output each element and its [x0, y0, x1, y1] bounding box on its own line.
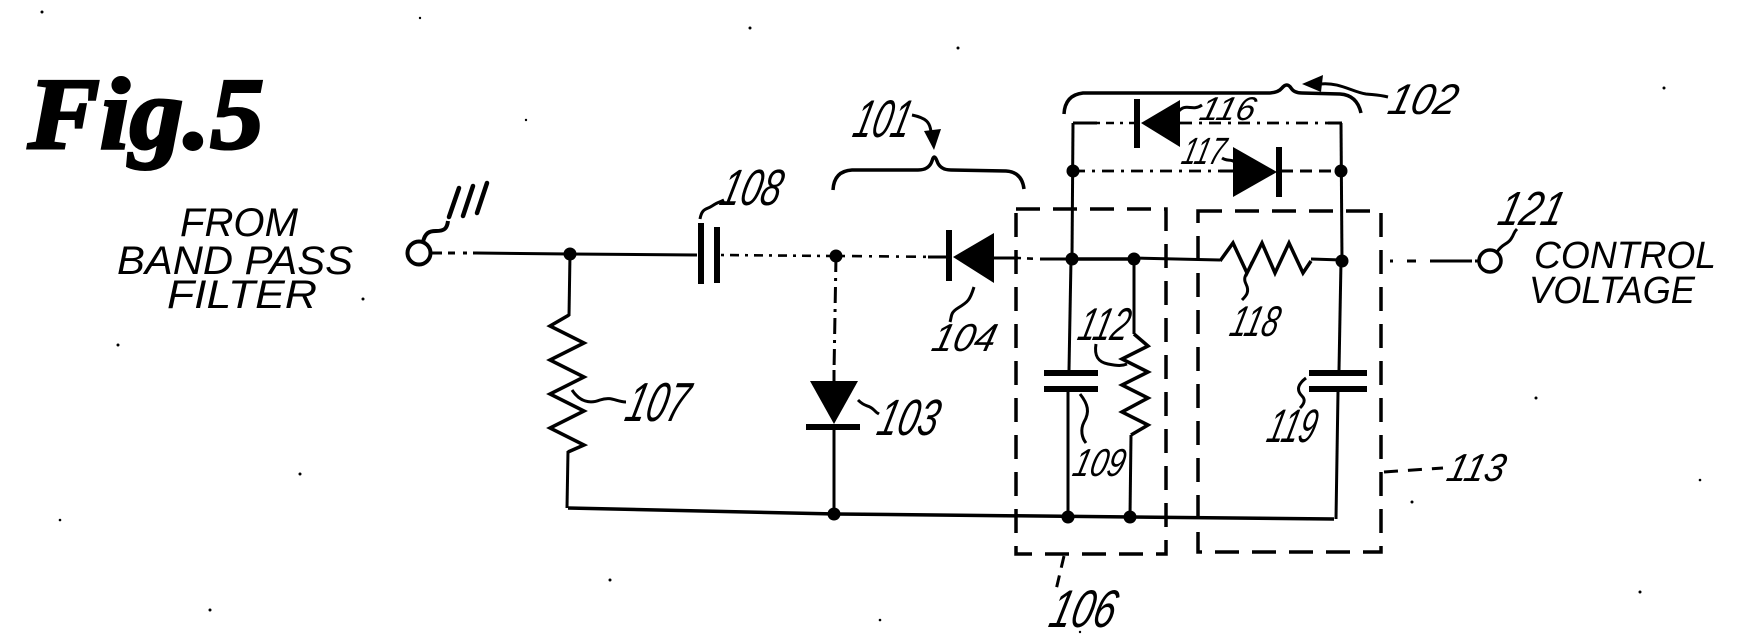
leader 119 [1299, 378, 1306, 408]
label 117 [1178, 131, 1232, 173]
dashed box 106 [1016, 209, 1166, 554]
wire top branch 2 right [1281, 170, 1341, 173]
resistor 112 [1122, 259, 1148, 517]
leader 107 [572, 390, 626, 402]
leader 106 dashed [1056, 556, 1064, 590]
svg-text:FILTER: FILTER [167, 273, 317, 317]
capacitor 119 [1309, 261, 1367, 519]
label 109 [1069, 442, 1131, 485]
bottom rail [568, 508, 1334, 519]
figure title Fig.5 [27, 58, 264, 171]
wire node B to diode 104 [842, 256, 946, 257]
brace 101 [833, 157, 1024, 190]
label 103 [872, 389, 946, 446]
junction rail-112 [1124, 511, 1137, 524]
wire capacitor 108 to node B [721, 255, 830, 256]
node A junction [564, 248, 577, 261]
text CONTROL VOLTAGE [1529, 235, 1716, 312]
node C junction [1066, 253, 1079, 266]
svg-text:Fig.5: Fig.5 [27, 58, 264, 171]
wire node E to terminal 121 [1390, 260, 1478, 263]
junction rail-109 [1062, 511, 1075, 524]
label 121 [1493, 183, 1570, 236]
leader 103 [858, 400, 879, 414]
label 104 [928, 317, 1002, 360]
label 107 [620, 371, 698, 433]
resistor 118 [1220, 243, 1311, 273]
leader 121 [1497, 229, 1517, 252]
terminal 111 [408, 242, 431, 265]
diode 103 [806, 256, 860, 514]
node D junction [1128, 253, 1141, 266]
wire top branch 1 left [1073, 122, 1097, 125]
svg-text:121: 121 [1493, 183, 1570, 236]
leader 113 dashed [1384, 468, 1443, 472]
wire node D to resistor 118 [1134, 258, 1220, 260]
label 119 [1262, 401, 1323, 453]
label 108 [715, 159, 789, 216]
junction top branch 2 left [1067, 165, 1080, 178]
junction rail-103 [828, 508, 841, 521]
right vertical riser [1341, 123, 1342, 261]
label 118 [1226, 298, 1287, 346]
label 113 [1443, 447, 1511, 490]
bracket 102 [1064, 85, 1361, 114]
wire stub at diode 117 [1220, 170, 1234, 173]
terminal 121 [1479, 250, 1501, 272]
wire node A to capacitor 108 [570, 254, 697, 255]
wire diode 104 to node C [994, 257, 1018, 260]
leader 116 [1178, 105, 1202, 112]
label 111 [449, 183, 487, 217]
leader 117 [1222, 158, 1236, 163]
leader 112 [1096, 344, 1128, 366]
dashed box 113 [1198, 211, 1381, 552]
arrow 101 [912, 115, 931, 132]
leader 109 [1080, 394, 1087, 443]
svg-text:VOLTAGE: VOLTAGE [1529, 270, 1696, 312]
wire stub at diode 104 [928, 256, 947, 259]
junction top branch 2 right [1335, 165, 1348, 178]
node E junction [1336, 255, 1349, 268]
label 106 [1044, 580, 1124, 637]
leader 118 [1242, 262, 1252, 300]
svg-text:113: 113 [1443, 447, 1511, 490]
wire top branch 2 left [1073, 170, 1233, 173]
label 116 [1196, 91, 1260, 127]
left vertical riser [1072, 123, 1073, 259]
svg-text:102: 102 [1384, 76, 1464, 124]
diode 116 [1137, 99, 1180, 148]
leader 111 [423, 221, 448, 242]
capacitor 109 [1044, 259, 1098, 517]
leader 108 [700, 200, 724, 219]
diode 104 [949, 230, 994, 283]
capacitor 108 [701, 223, 717, 284]
arrow 102 [1302, 75, 1323, 92]
leader 104 [950, 287, 974, 322]
wire node C to node D [1072, 257, 1134, 261]
svg-text:109: 109 [1069, 442, 1131, 485]
label 112 [1074, 299, 1137, 350]
diode 117 [1233, 147, 1279, 197]
wire top branch 1 right [1180, 122, 1328, 125]
wire input to node A [431, 252, 478, 255]
label 102 [1384, 76, 1464, 124]
label 101 [848, 90, 919, 149]
node B junction [830, 250, 843, 263]
wire resistor 118 to node E [1311, 259, 1342, 260]
text FROM BAND PASS FILTER [117, 201, 353, 317]
resistor 107 [550, 254, 584, 508]
svg-text:104: 104 [928, 317, 1002, 360]
